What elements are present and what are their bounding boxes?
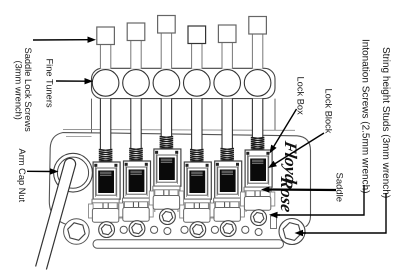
label: Intonation Screws (2.5mm wrench) xyxy=(360,39,371,194)
clamp screw top 3 xyxy=(161,159,172,162)
base plate left edge xyxy=(49,133,71,225)
clamp screw top 4 xyxy=(191,172,202,175)
saddle body 2 xyxy=(124,161,151,198)
right end cap xyxy=(271,216,277,229)
spring 6 xyxy=(251,137,265,150)
insert pocket 5 xyxy=(218,167,238,194)
saddle mount screws 4 xyxy=(186,164,189,167)
housing right side wall xyxy=(274,99,276,130)
svg-text:Lock Block: Lock Block xyxy=(324,89,334,134)
fine tuner screw post 5 xyxy=(222,99,232,149)
svg-text:String height Studs (3mm wrenc: String height Studs (3mm wrench) xyxy=(380,47,391,198)
base plate bottom lip xyxy=(93,240,284,248)
spring 5 xyxy=(220,148,234,161)
string shaft 6 xyxy=(244,187,271,197)
lock screw stem 1 xyxy=(100,44,110,69)
saddle body 5 xyxy=(215,161,242,198)
crossbar 3 xyxy=(153,186,180,190)
lock block insert 2 xyxy=(129,170,145,193)
side tabs 3 xyxy=(149,191,154,205)
svg-text:Saddle: Saddle xyxy=(334,173,345,203)
lock screw stem 6 xyxy=(252,33,262,69)
svg-text:Rose: Rose xyxy=(277,175,297,215)
svg-text:Intonation Screws (2.5mm wrenc: Intonation Screws (2.5mm wrench) xyxy=(360,39,371,194)
crossbar 5 xyxy=(214,198,241,202)
clamp screw top 1 xyxy=(100,172,111,175)
pedestal 1 xyxy=(92,209,118,223)
spring 2 xyxy=(129,148,143,161)
leader: string height studs xyxy=(302,193,386,233)
label: Lock Box xyxy=(296,77,306,116)
lock block insert 6 xyxy=(250,159,266,182)
saddle lock screw head 1 xyxy=(97,27,115,45)
saddle body 1 xyxy=(93,162,120,199)
saddle lock screw head 4 xyxy=(188,26,206,44)
lock block insert 1 xyxy=(98,171,114,194)
string shaft 2 xyxy=(123,198,150,208)
clamp screw top 6 xyxy=(252,160,263,163)
arrow: saddle xyxy=(268,188,337,191)
insert pocket 1 xyxy=(96,168,116,195)
fine tuner screw post 6 xyxy=(252,99,262,138)
svg-text:(3mm wrench): (3mm wrench) xyxy=(14,61,24,120)
saddle lock screw head 3 xyxy=(158,16,176,34)
lock screw stem 2 xyxy=(131,40,141,69)
intonation screw hex 1 xyxy=(99,222,115,238)
spring 3 xyxy=(160,136,174,149)
insert pocket 3 xyxy=(157,155,177,182)
base plate small lip line xyxy=(66,136,92,138)
fine tuner 2 xyxy=(123,70,150,97)
saddle mount screws 3 xyxy=(155,151,158,154)
lock block insert 4 xyxy=(189,171,205,194)
saddle body 4 xyxy=(184,162,211,199)
label: Fine Tuners xyxy=(45,59,55,108)
lock screw stem 3 xyxy=(161,32,171,69)
label: Arm Cap Nut xyxy=(17,149,27,203)
pedestal 2 xyxy=(123,208,149,222)
fine tuner screw post 4 xyxy=(192,99,202,150)
base plate top inner line xyxy=(63,128,295,131)
tremolo arm xyxy=(36,158,76,269)
small screws between saddles xyxy=(120,226,127,233)
lock block insert 5 xyxy=(220,170,236,193)
intonation screw hex 3 xyxy=(160,209,176,225)
pedestal 6 xyxy=(244,197,270,211)
saddle lock screw head 6 xyxy=(249,17,267,35)
crossbar 1 xyxy=(92,199,119,203)
left mounting hex bolt xyxy=(64,219,90,245)
pedestal 3 xyxy=(153,196,179,210)
saddle mount screws 6 xyxy=(246,152,249,155)
intonation screw hex 4 xyxy=(190,222,206,238)
arrow: lock box xyxy=(273,109,297,148)
svg-text:Fine Tuners: Fine Tuners xyxy=(45,59,55,108)
fine tuner 5 xyxy=(214,70,241,97)
saddle body 3 xyxy=(154,149,181,186)
label: String height Studs (3mm wrench) xyxy=(380,47,391,198)
svg-text:Arm Cap Nut: Arm Cap Nut xyxy=(17,149,27,203)
intonation screw hex 2 xyxy=(129,221,145,237)
base plate outline xyxy=(63,133,311,227)
string shaft 4 xyxy=(183,199,210,209)
side tabs 6 xyxy=(241,192,246,206)
intonation screw hex 5 xyxy=(220,221,236,237)
lower screw 3 xyxy=(164,228,171,235)
saddle lock screw head 5 xyxy=(218,25,236,43)
string height stud (right) xyxy=(279,219,305,245)
fine tuner 4 xyxy=(184,70,211,97)
saddle lock screw head 2 xyxy=(127,23,145,41)
crossbar 2 xyxy=(123,198,150,202)
insert pocket 4 xyxy=(187,168,207,195)
arm cap nut ring xyxy=(54,153,93,192)
lock block insert 3 xyxy=(159,158,175,181)
fine tuner 6 xyxy=(244,70,271,97)
insert pocket 6 xyxy=(248,156,268,183)
Floyd Rose logo xyxy=(277,139,301,214)
arrow: lock block xyxy=(274,133,325,165)
crossbar 6 xyxy=(244,187,271,191)
label: Saddle xyxy=(334,173,345,203)
saddle mount screws 1 xyxy=(94,164,97,167)
leader: intonation screws xyxy=(276,185,364,215)
arrow: saddle lock screws xyxy=(33,39,90,41)
saddle mount screws 2 xyxy=(125,163,128,166)
lock screw stem 4 xyxy=(192,43,202,69)
lock screw stem 5 xyxy=(222,42,232,69)
arrow: arm cap nut xyxy=(27,170,52,172)
fine tuner screw post 1 xyxy=(100,99,110,150)
saddle mount screws 5 xyxy=(216,163,219,166)
pedestal 5 xyxy=(214,208,240,222)
clamp screw top 2 xyxy=(130,171,141,174)
string shaft 5 xyxy=(214,198,241,208)
string shaft 3 xyxy=(153,186,180,196)
intonation screw hex 6 xyxy=(251,210,267,226)
pedestal 4 xyxy=(184,209,210,223)
label: Lock Block xyxy=(324,89,334,134)
fine tuner 3 xyxy=(153,70,180,97)
rails between saddles xyxy=(117,169,124,212)
side tabs 2 xyxy=(119,203,124,217)
insert pocket 2 xyxy=(127,167,147,194)
fine tuner housing xyxy=(92,68,276,98)
label: Saddle Lock Screws (3mm wrench) xyxy=(14,48,33,133)
housing left side wall xyxy=(91,99,93,133)
clamp screw top 5 xyxy=(222,171,233,174)
spring 1 xyxy=(99,149,113,162)
fine tuner screw post 2 xyxy=(131,99,141,149)
side tabs 5 xyxy=(210,203,215,217)
string shaft 1 xyxy=(92,199,119,209)
side tabs 4 xyxy=(180,204,185,218)
spring 4 xyxy=(190,149,204,162)
crossbar 4 xyxy=(183,199,210,203)
side tabs 1 xyxy=(89,204,94,218)
saddle body 6 xyxy=(245,150,272,187)
fine tuner 1 xyxy=(92,70,119,97)
lower screw 6 xyxy=(255,229,262,236)
fine tuner screw post 3 xyxy=(161,99,171,137)
arrow: fine tuners xyxy=(56,80,87,82)
